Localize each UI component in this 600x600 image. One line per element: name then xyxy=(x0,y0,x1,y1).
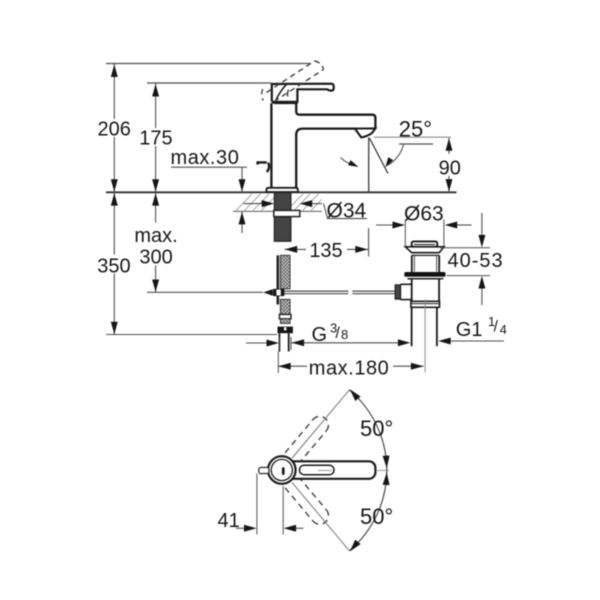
top reference line 206 xyxy=(106,63,311,65)
25deg label xyxy=(396,119,437,137)
tailpipe G1 1/4 xyxy=(411,307,413,346)
lever top view xyxy=(288,461,375,479)
water stream vertical xyxy=(368,138,370,193)
svg-text:50°: 50° xyxy=(360,416,393,441)
svg-text:90: 90 xyxy=(439,157,461,179)
extension line for 135 xyxy=(368,228,370,257)
svg-text:/: / xyxy=(494,319,499,336)
locknut xyxy=(274,210,300,216)
side port for rod xyxy=(400,283,411,285)
pop-up rod knob at rear xyxy=(258,162,269,172)
drain centerline xyxy=(424,300,426,373)
drain flange xyxy=(405,247,444,253)
swivel arc xyxy=(349,390,387,551)
dimension G3/8 xyxy=(246,321,410,350)
svg-text:Ø34: Ø34 xyxy=(327,200,367,223)
deck hatching xyxy=(236,194,322,211)
dimension Ø34 xyxy=(244,199,370,223)
svg-text:max.180: max.180 xyxy=(309,357,390,379)
dimension 40-53 xyxy=(440,213,504,305)
hose end fitting xyxy=(279,314,291,318)
svg-text:135: 135 xyxy=(309,240,342,262)
reference line 175 xyxy=(147,82,271,84)
svg-text:175: 175 xyxy=(139,127,172,149)
dimension 90 xyxy=(437,138,463,192)
dimension 41 xyxy=(218,474,304,535)
reference line max.300 bottom xyxy=(147,291,263,293)
drain body xyxy=(411,279,413,302)
dimension 350 xyxy=(96,193,132,335)
dashed handle +50 xyxy=(285,416,328,464)
dimension max.180 xyxy=(278,352,424,380)
dashed handle -50 xyxy=(285,477,328,525)
drain neck xyxy=(411,255,413,272)
svg-text:8: 8 xyxy=(341,327,348,342)
svg-text:41: 41 xyxy=(218,510,240,532)
svg-text:G: G xyxy=(312,324,328,346)
reference line 350 bottom xyxy=(106,334,277,336)
handle lever xyxy=(272,84,334,103)
dimension line 135 xyxy=(285,240,369,262)
counter deck line xyxy=(106,191,457,193)
rubber washer xyxy=(404,272,445,277)
ball joint xyxy=(263,289,272,295)
dimension 175 xyxy=(137,84,175,193)
flexible hose lower xyxy=(280,299,290,314)
dimension max.30 xyxy=(171,147,248,233)
pop-up waste: Ø63 dimension xyxy=(376,202,472,246)
svg-text:max.: max. xyxy=(134,225,177,247)
svg-text:40-53: 40-53 xyxy=(448,250,504,272)
drain plug cap xyxy=(412,241,438,246)
svg-text:/: / xyxy=(336,325,341,342)
vertical pop-up rod xyxy=(276,255,279,304)
svg-text:50°: 50° xyxy=(360,504,393,529)
deck bottom line xyxy=(233,210,322,212)
base plate xyxy=(266,188,298,192)
thin centerlines to arc xyxy=(292,390,349,458)
svg-text:300: 300 xyxy=(139,247,172,269)
25deg arc xyxy=(388,145,404,166)
dimension 206 xyxy=(97,64,132,192)
svg-text:G1: G1 xyxy=(456,319,483,341)
svg-text:350: 350 xyxy=(97,256,130,278)
flexible hose upper xyxy=(280,255,290,288)
small arc left xyxy=(341,158,356,166)
svg-text:206: 206 xyxy=(98,119,131,141)
pop-up rod horizontal xyxy=(284,291,401,294)
label G1 1/4 xyxy=(438,314,507,345)
svg-text:4: 4 xyxy=(500,322,507,337)
extension line from aerator xyxy=(374,136,451,138)
centerline right xyxy=(318,469,332,471)
threaded shank below deck xyxy=(274,193,290,241)
hub bottom dark band xyxy=(274,101,297,104)
dashed raised handle xyxy=(262,61,324,102)
dimension max.300 xyxy=(131,193,181,293)
G3/8 pipe xyxy=(278,333,280,351)
drain bottom nut xyxy=(411,301,440,307)
svg-text:25°: 25° xyxy=(399,116,432,141)
water stream 25deg line xyxy=(369,138,388,174)
faucet body + spout xyxy=(271,103,375,187)
handle hub top view xyxy=(268,456,296,484)
tab left xyxy=(259,467,269,473)
hub inner curve xyxy=(276,84,287,100)
svg-text:max.30: max.30 xyxy=(171,147,240,169)
svg-text:Ø63: Ø63 xyxy=(404,202,444,225)
